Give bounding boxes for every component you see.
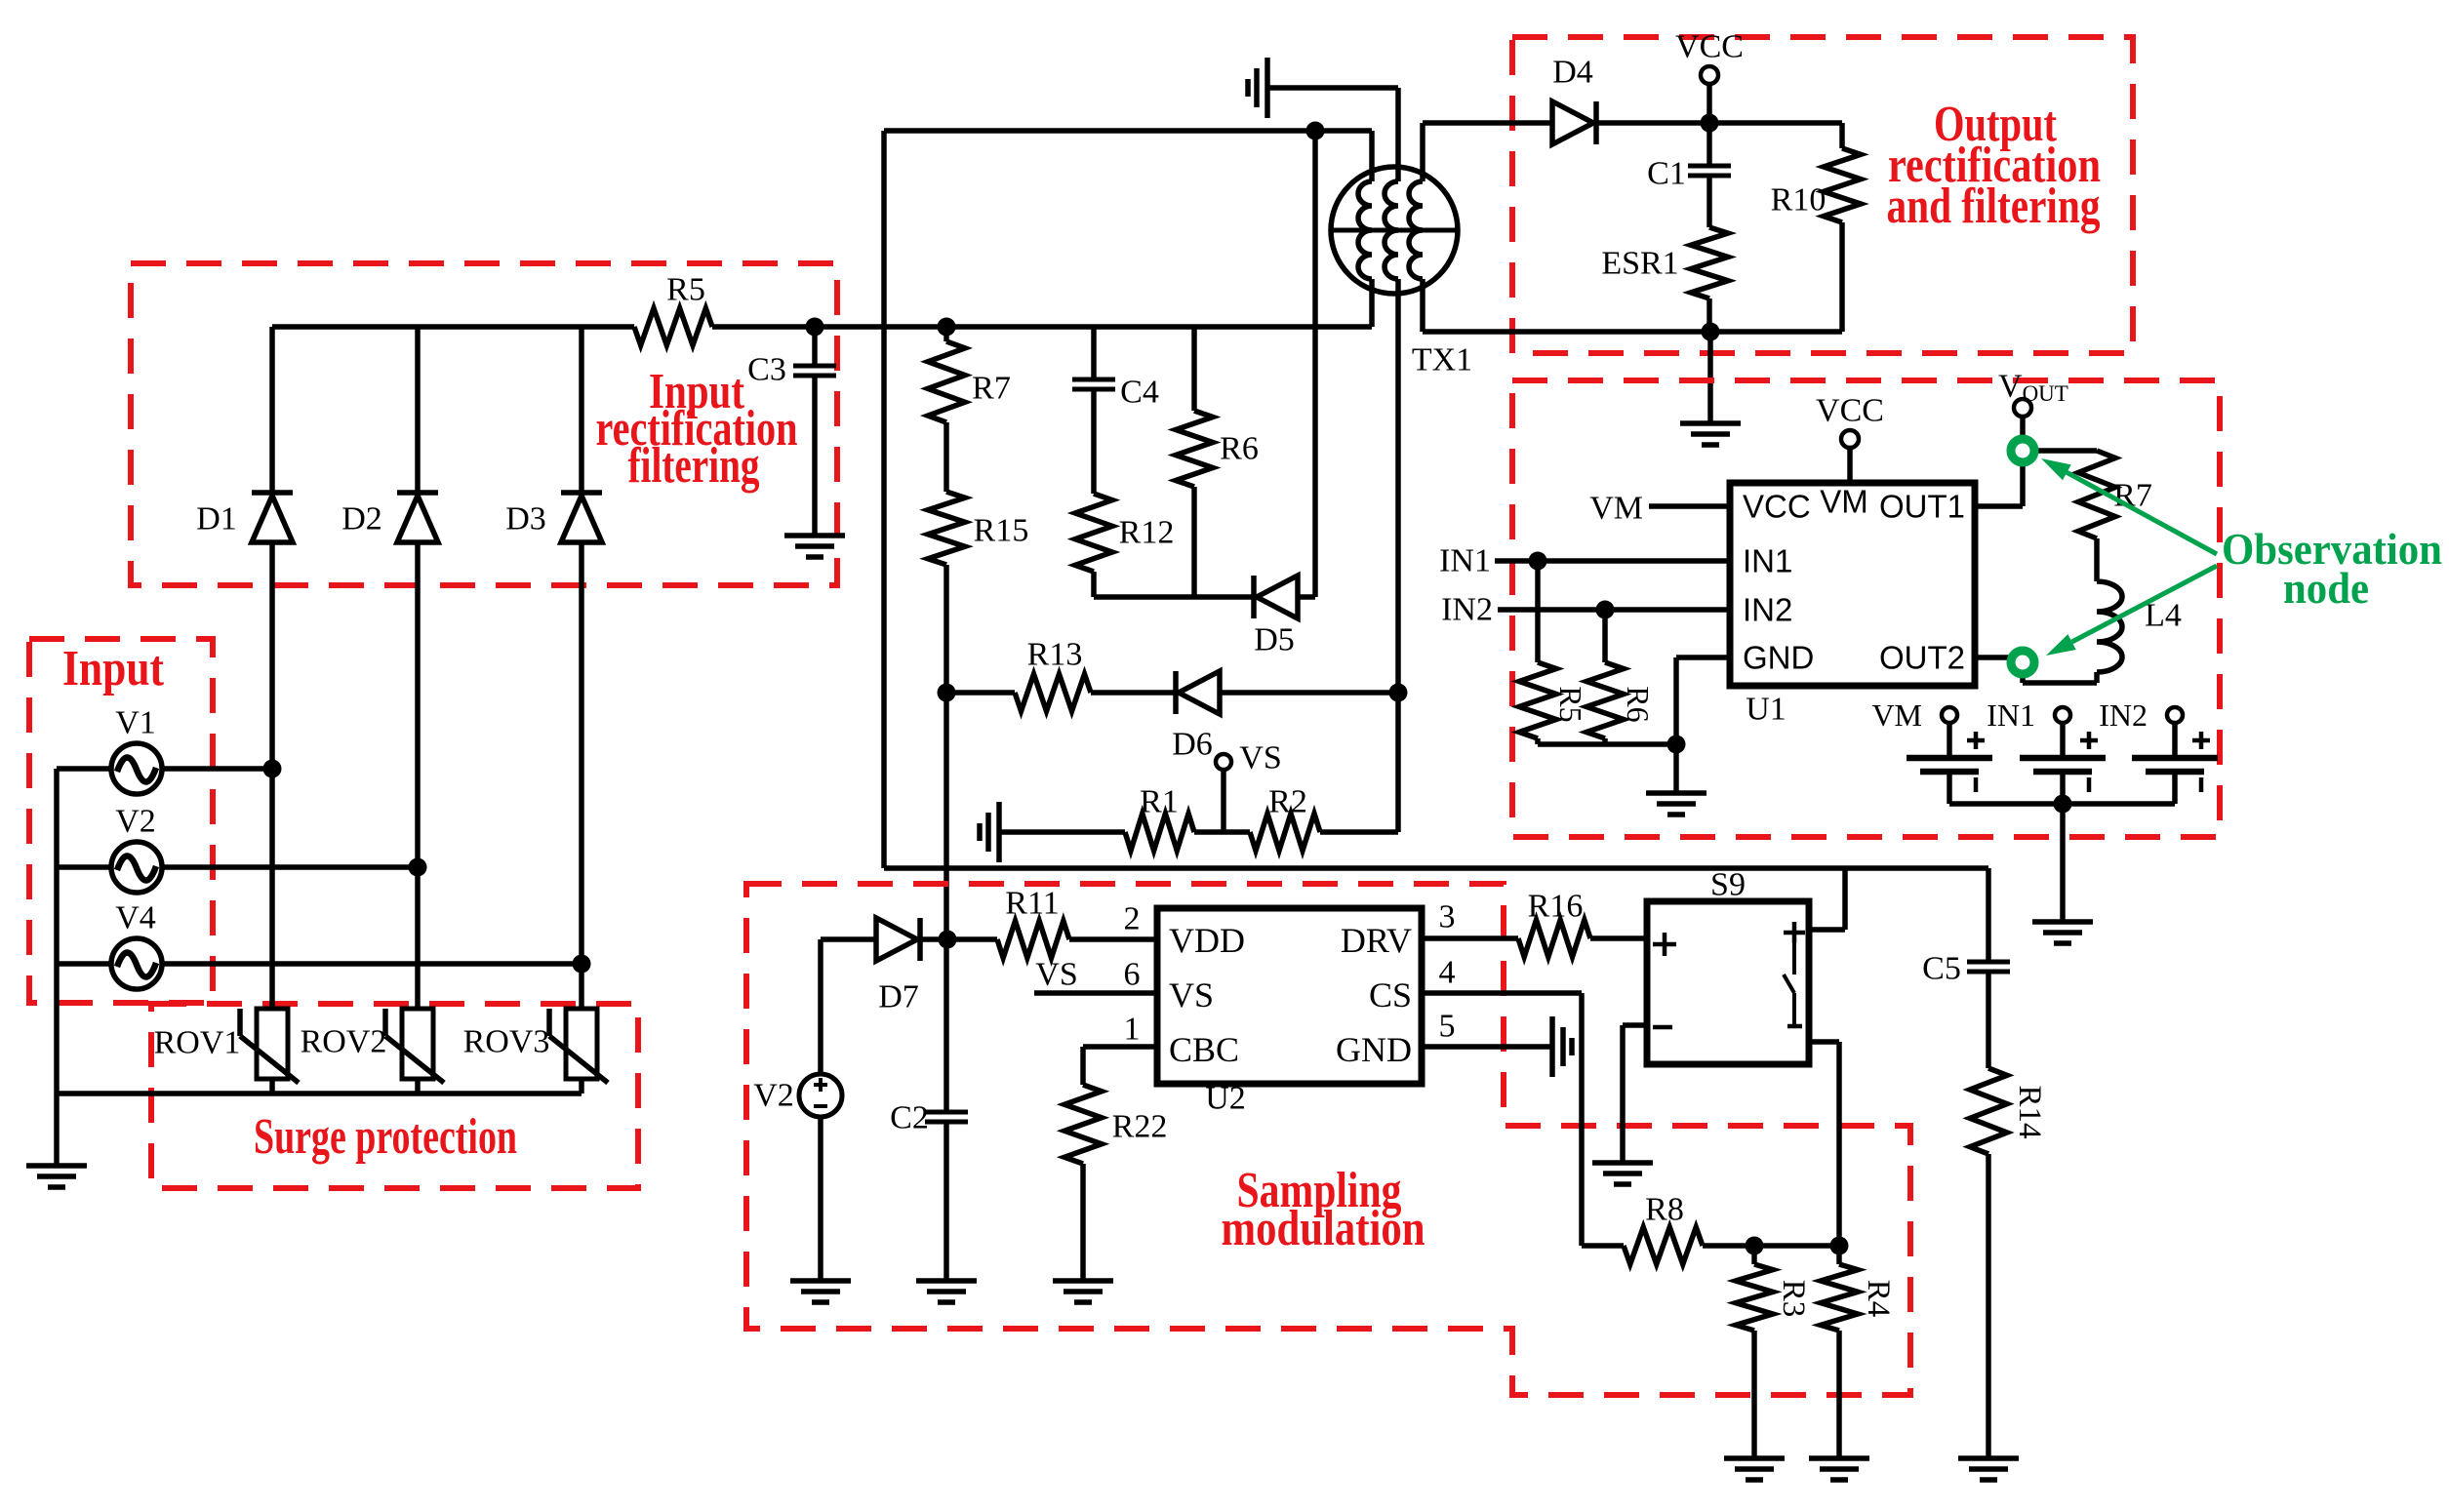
svg-text:GND: GND (1743, 640, 1814, 676)
svg-text:U2: U2 (1205, 1081, 1246, 1117)
svg-text:VS: VS (1035, 957, 1077, 993)
svg-text:6: 6 (1124, 957, 1141, 993)
svg-text:R6: R6 (1621, 686, 1656, 722)
svg-text:C1: C1 (1647, 156, 1686, 192)
svg-text:D4: D4 (1552, 55, 1593, 91)
svg-text:R22: R22 (1112, 1109, 1168, 1145)
svg-text:D1: D1 (196, 501, 237, 537)
svg-text:R6: R6 (1220, 431, 1259, 467)
svg-text:C4: C4 (1120, 375, 1159, 411)
svg-text:VS: VS (1169, 975, 1214, 1015)
svg-text:R5: R5 (1553, 686, 1588, 722)
svg-text:R14: R14 (2012, 1085, 2047, 1138)
svg-text:R10: R10 (1771, 182, 1827, 219)
svg-text:ESR1: ESR1 (1601, 246, 1678, 282)
svg-text:VM: VM (1871, 697, 1922, 733)
svg-text:C2: C2 (890, 1100, 929, 1136)
svg-text:D5: D5 (1254, 622, 1295, 658)
svg-text:modulation: modulation (1222, 1201, 1425, 1256)
svg-text:CBC: CBC (1169, 1030, 1239, 1069)
svg-text:and filtering: and filtering (1887, 179, 2101, 234)
svg-text:R11: R11 (1005, 886, 1059, 922)
svg-text:GND: GND (1336, 1030, 1412, 1069)
svg-text:C5: C5 (1922, 951, 1961, 987)
svg-text:VM: VM (1589, 491, 1643, 527)
svg-text:CS: CS (1369, 975, 1412, 1015)
svg-text:C3: C3 (747, 352, 786, 388)
svg-text:R13: R13 (1027, 637, 1083, 673)
svg-text:V4: V4 (115, 900, 156, 936)
svg-text:IN1: IN1 (1743, 543, 1792, 579)
svg-text:VCC: VCC (1816, 393, 1884, 429)
svg-text:V2: V2 (753, 1078, 794, 1114)
svg-text:R5: R5 (666, 272, 705, 308)
svg-text:IN1: IN1 (1439, 543, 1491, 579)
svg-text:V2: V2 (115, 804, 156, 840)
svg-text:ROV3: ROV3 (463, 1024, 550, 1060)
svg-text:V1: V1 (115, 705, 156, 741)
svg-text:IN1: IN1 (1987, 697, 2035, 733)
svg-text:D2: D2 (341, 501, 382, 537)
svg-text:D3: D3 (505, 501, 546, 537)
svg-text:DRV: DRV (1341, 921, 1412, 960)
svg-text:OUT1: OUT1 (1879, 489, 1965, 525)
svg-text:ROV2: ROV2 (301, 1024, 387, 1060)
svg-text:D6: D6 (1172, 727, 1213, 763)
svg-text:TX1: TX1 (1412, 342, 1472, 378)
svg-text:U1: U1 (1746, 692, 1787, 728)
svg-text:R2: R2 (1268, 784, 1307, 820)
svg-text:Surge protection: Surge protection (254, 1109, 517, 1165)
svg-text:VCC: VCC (1743, 489, 1811, 525)
svg-text:D7: D7 (878, 979, 919, 1015)
svg-text:S9: S9 (1710, 867, 1746, 903)
svg-text:VCC: VCC (1675, 29, 1744, 65)
svg-text:ROV1: ROV1 (154, 1025, 241, 1061)
svg-text:3: 3 (1439, 899, 1456, 935)
svg-text:R7: R7 (972, 371, 1011, 407)
svg-text:R3: R3 (1776, 1280, 1811, 1318)
svg-text:5: 5 (1439, 1009, 1456, 1045)
svg-text:R15: R15 (974, 513, 1029, 549)
svg-text:R1: R1 (1140, 784, 1179, 820)
svg-text:R12: R12 (1119, 515, 1175, 551)
svg-text:IN2: IN2 (1743, 592, 1792, 628)
svg-text:4: 4 (1439, 955, 1456, 991)
svg-text:node: node (2283, 563, 2369, 613)
svg-text:R8: R8 (1645, 1192, 1684, 1228)
svg-text:R16: R16 (1528, 889, 1584, 925)
svg-text:IN2: IN2 (2099, 697, 2148, 733)
svg-text:2: 2 (1124, 901, 1141, 937)
svg-text:R4: R4 (1861, 1280, 1896, 1318)
svg-text:VDD: VDD (1169, 921, 1245, 960)
svg-text:VS: VS (1239, 740, 1281, 776)
svg-text:VM: VM (1820, 484, 1868, 520)
svg-text:filtering: filtering (628, 438, 760, 494)
svg-text:OUT2: OUT2 (1879, 640, 1965, 676)
svg-text:Input: Input (62, 641, 165, 696)
svg-text:IN2: IN2 (1441, 592, 1493, 628)
svg-text:1: 1 (1124, 1012, 1141, 1048)
